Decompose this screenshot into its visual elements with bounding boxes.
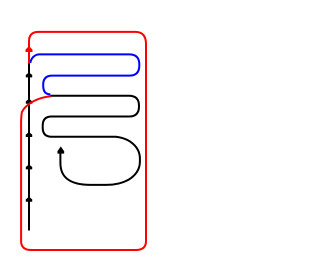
red arrowhead pointing up	[26, 46, 33, 52]
wire black entry line	[28, 63, 30, 230]
black arrowhead 2	[26, 99, 32, 104]
wire blue serpentine	[30, 54, 139, 94]
black arrowhead 3	[26, 132, 32, 137]
wire black serpentine with loop turn	[43, 96, 140, 185]
black arrowhead 1	[26, 72, 32, 77]
black arrowhead 5	[26, 197, 32, 202]
black arrowhead 4	[26, 164, 32, 169]
black loop arrowhead	[57, 146, 64, 153]
wire red perimeter path	[21, 32, 146, 250]
